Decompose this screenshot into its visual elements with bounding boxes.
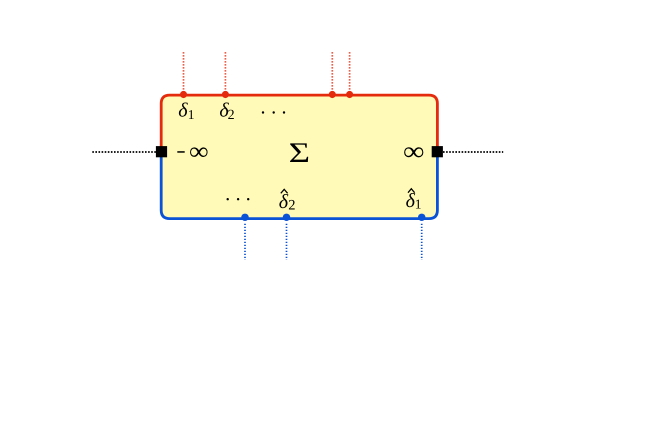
- wire: blue dotted stub below delta-hat-1: [421, 224, 423, 260]
- blue border (bottom half): [161, 152, 437, 219]
- wire: black dotted line right: [443, 151, 503, 153]
- label cdots top: [262, 111, 285, 113]
- svg-text:1: 1: [415, 197, 422, 212]
- node blue dot 1: [241, 214, 248, 221]
- red border (top half): [161, 95, 437, 152]
- label Sigma: [289, 138, 310, 169]
- wire: red dotted stub above delta2: [224, 52, 226, 90]
- node red dot 3: [329, 91, 336, 98]
- wire: blue dotted stub below delta-hat-2: [286, 224, 288, 260]
- svg-text:2: 2: [288, 197, 295, 213]
- wire: black dotted line left: [92, 151, 156, 153]
- svg-text:∞: ∞: [189, 137, 209, 165]
- wire: red dotted stub pair right: [349, 52, 351, 90]
- svg-text:1: 1: [188, 107, 195, 122]
- yellow box fill: [161, 95, 437, 219]
- node -infinity terminal (black square): [156, 146, 167, 157]
- label minus infinity: [177, 151, 184, 153]
- node blue dot 2: [283, 214, 290, 221]
- node delta1 (red dot): [180, 91, 187, 98]
- label cdots bottom: [227, 198, 250, 200]
- node blue dot 3: [418, 214, 425, 221]
- svg-text:Σ: Σ: [289, 138, 310, 169]
- node +infinity terminal (black square): [432, 146, 443, 157]
- svg-text:2: 2: [228, 108, 235, 123]
- wire: red dotted stub above delta1: [183, 52, 185, 90]
- node red dot 4: [346, 91, 353, 98]
- wire: red dotted stub pair left: [331, 52, 333, 90]
- svg-text:∞: ∞: [403, 137, 425, 166]
- node delta2 (red dot): [222, 91, 229, 98]
- wire: blue dotted stub below dots-ellipsis: [244, 224, 246, 260]
